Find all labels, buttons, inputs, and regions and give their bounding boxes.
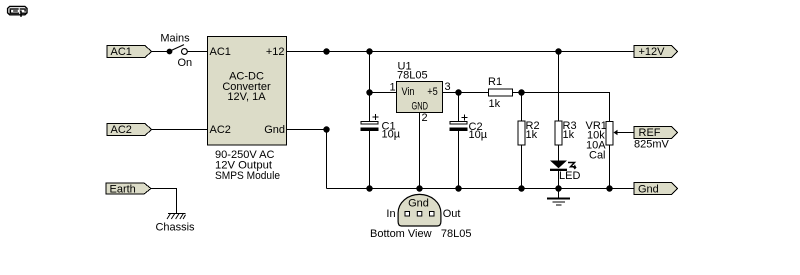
wire +12 rail	[287, 51, 635, 53]
wire AC1 tag to switch	[151, 51, 170, 53]
capacitor C2 bottom plate	[450, 128, 468, 132]
tag REF	[634, 127, 678, 139]
node dot Vin and C1	[366, 89, 372, 95]
wire U1 pin 2 to ground rail	[419, 113, 421, 189]
wire LED to ground rail	[558, 171, 560, 189]
chassis symbol	[167, 214, 186, 220]
wire +12 rail to R3	[558, 52, 560, 122]
module PS1 AC-DC converter body	[208, 37, 287, 146]
78L05 package bottom view outline	[398, 194, 441, 226]
svg-text:Cal: Cal	[589, 150, 606, 162]
LED D1 cathode bar	[550, 169, 567, 171]
wire R2 bottom lead	[521, 145, 523, 189]
svg-text:In: In	[386, 208, 395, 220]
wire module Gnd drop	[326, 130, 328, 189]
resistor R1 body	[489, 89, 513, 96]
svg-text:+12V: +12V	[639, 46, 666, 58]
svg-text:AC2: AC2	[111, 124, 132, 136]
wire C1 top lead	[369, 93, 371, 122]
78L05 package pad 1	[405, 212, 410, 217]
resistor R2 body	[518, 121, 525, 145]
svg-text:1: 1	[390, 82, 396, 94]
78L05 package pad 2	[417, 212, 422, 217]
svg-text:3: 3	[445, 81, 451, 93]
op-amp U1 78L05 body	[397, 82, 443, 113]
svg-text:10µ: 10µ	[382, 129, 401, 141]
svg-text:1k: 1k	[526, 129, 538, 141]
svg-text:Vin: Vin	[402, 86, 415, 98]
capacitor C1 bottom plate	[361, 128, 379, 132]
svg-text:+12: +12	[266, 46, 285, 58]
wire R2 top lead	[521, 93, 523, 122]
svg-text:SMPS Module: SMPS Module	[215, 170, 280, 182]
potentiometer VR1 body	[606, 122, 613, 146]
svg-text:AC1: AC1	[111, 46, 132, 58]
svg-text:1k: 1k	[563, 129, 575, 141]
svg-text:AC2: AC2	[210, 124, 231, 136]
capacitor C2 plus sign	[462, 115, 468, 121]
tag Gnd output	[634, 183, 678, 195]
node dot ground rail U1 pin2	[416, 185, 422, 191]
wire C2 bottom lead	[458, 131, 460, 189]
wire switch to module AC1	[187, 51, 207, 53]
resistor R3 body	[555, 121, 562, 145]
node dot top rail at module gnd column	[323, 48, 329, 54]
node dot ground rail R2	[518, 185, 524, 191]
svg-text:12V, 1A: 12V, 1A	[227, 91, 266, 103]
svg-text:GND: GND	[412, 101, 429, 113]
svg-text:2: 2	[422, 112, 428, 124]
node dot R2 top	[518, 89, 524, 95]
LED D1 anode triangle	[550, 161, 567, 169]
switch SW1 throw contact	[182, 49, 188, 55]
tag Earth	[106, 183, 151, 194]
wire +12 rail drop to Vin node	[369, 52, 371, 93]
svg-text:Bottom View: Bottom View	[370, 228, 432, 240]
LED D1 light arrow	[568, 163, 576, 169]
wire C2 top lead	[458, 93, 460, 122]
wire U1 pin 3 to R1	[443, 92, 489, 94]
svg-text:LED: LED	[559, 170, 580, 182]
tag +12V	[634, 46, 678, 58]
node dot C2 top	[455, 89, 461, 95]
svg-text:AC1: AC1	[210, 46, 231, 58]
wire AC2 tag to module	[151, 129, 208, 131]
potentiometer VR1 wiper arrow	[614, 130, 618, 135]
wire R3 to LED	[558, 145, 560, 161]
svg-text:Gnd: Gnd	[408, 198, 429, 210]
svg-text:825mV: 825mV	[634, 139, 670, 151]
ground symbol	[547, 189, 570, 206]
switch SW1 lever	[170, 45, 184, 51]
node dot module Gnd corner	[323, 126, 329, 132]
switch SW1 pole contact	[167, 49, 173, 55]
capacitor C2 top plate	[450, 122, 467, 125]
node dot top rail to Vin drop	[366, 48, 372, 54]
svg-text:Mains: Mains	[160, 33, 190, 45]
node dot top rail to R3 drop	[555, 48, 561, 54]
svg-text:REF: REF	[639, 127, 661, 139]
tag AC2	[107, 124, 152, 136]
svg-text:+5: +5	[427, 86, 438, 98]
wire C1 bottom lead	[369, 131, 371, 189]
node dot ground rail C1	[366, 185, 372, 191]
capacitor C1 top plate	[361, 122, 378, 125]
node dot ground rail LED	[555, 185, 561, 191]
ESP logo	[8, 6, 27, 16]
svg-text:Chassis: Chassis	[155, 222, 195, 234]
svg-text:78L05: 78L05	[441, 228, 472, 240]
wire R1 to VR1 corner	[513, 93, 610, 122]
svg-text:On: On	[178, 57, 193, 69]
svg-text:1k: 1k	[489, 98, 501, 110]
node dot ground rail C2	[455, 185, 461, 191]
svg-text:Gnd: Gnd	[264, 124, 285, 136]
wire module Gnd pin	[287, 129, 327, 131]
svg-text:Gnd: Gnd	[638, 184, 659, 196]
78L05 package pad 3	[430, 212, 435, 217]
tag AC1	[107, 46, 152, 58]
wire VR1 wiper to REF tag	[617, 132, 635, 134]
capacitor C1 plus sign	[373, 114, 379, 120]
node dot ground rail VR1	[606, 185, 612, 191]
wire Earth tag to chassis	[151, 189, 177, 214]
svg-text:78L05: 78L05	[397, 70, 428, 82]
wire Vin node to U1 pin 1	[370, 92, 397, 94]
svg-text:Earth: Earth	[110, 184, 136, 196]
svg-text:R1: R1	[488, 76, 502, 88]
wire VR1 bottom lead	[609, 145, 611, 189]
svg-text:Out: Out	[443, 208, 461, 220]
wire ground rail	[327, 188, 635, 190]
svg-text:10µ: 10µ	[469, 129, 488, 141]
